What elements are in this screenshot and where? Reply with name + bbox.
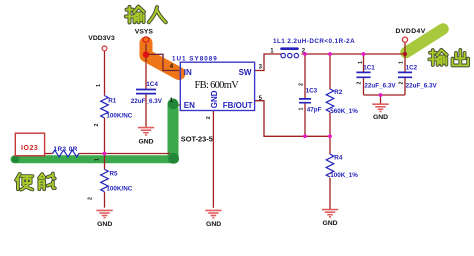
svg-text:22uF_6.3V: 22uF_6.3V [406,83,438,90]
wire EN node down to R5 [104,154,106,170]
green marker corner blob [168,153,179,164]
junction node FB rail C3 [303,134,307,138]
svg-text:1: 1 [358,61,364,64]
svg-text:2: 2 [399,81,405,84]
junction node EN/R1/R5/R3 [103,152,107,156]
svg-text:100K/NC: 100K/NC [106,113,132,120]
svg-text:1: 1 [399,61,405,64]
wire IO23 to R3 [45,153,53,155]
wire C3 top [304,54,306,99]
annotation text input (shu) [126,7,144,23]
green marker highlight EN vertical [168,104,179,158]
resistor R2 [326,89,334,112]
svg-text:22uF_6.3V: 22uF_6.3V [364,83,396,90]
wire EN vertical (under green marker) [170,105,180,154]
junction node FB rail R4 [328,134,332,138]
svg-text:R1: R1 [108,98,117,105]
wire R2 bottom to FB rail [329,112,331,136]
svg-text:1: 1 [95,158,101,161]
terminal DVDD4V [402,37,407,42]
ground under R5 [96,210,112,217]
green marker cap left end [12,156,20,164]
annotation text enable (shi) [16,174,32,190]
svg-text:47pF: 47pF [307,106,322,113]
svg-text:GND: GND [322,220,337,227]
svg-text:IN: IN [184,68,192,77]
svg-text:GND: GND [210,90,219,108]
annotation text input (ru) [149,7,166,22]
wire R2 top [329,54,331,89]
wire VSYS stem (under orange marker) [145,42,147,89]
capacitor C1 plates [356,72,370,77]
svg-text:VSYS: VSYS [135,29,154,36]
op-amp U1 chip body SY8089 [180,62,254,110]
ground under C1 C2 [372,104,388,111]
svg-text:R5: R5 [110,171,119,178]
annotation text enable (neng) [39,174,55,190]
wire bottom rail C1 to C2 [364,94,406,96]
svg-text:1C1: 1C1 [363,65,375,72]
wire C3 bottom to FB rail [304,103,306,137]
svg-text:2: 2 [299,83,305,86]
svg-text:2: 2 [206,116,212,119]
svg-text:1: 1 [96,84,102,87]
junction node rail C1 [362,52,366,56]
svg-text:GND: GND [97,221,112,228]
wire SW pin up to rail and to L1 [255,54,282,71]
svg-text:1R3 0R: 1R3 0R [54,146,78,153]
wire C2 top [404,54,406,72]
capacitor C3 plates [299,99,311,103]
svg-text:R2: R2 [334,89,343,96]
svg-text:560K_1%: 560K_1% [330,108,358,115]
junction node VSYS/IN [143,51,149,57]
orange marker highlight VSYS input [146,43,179,74]
svg-text:100K/NC: 100K/NC [106,186,132,193]
svg-text:1: 1 [299,107,305,110]
wire VDD3V3 stem to R1 [104,51,106,96]
terminal VDD3V3 [102,46,107,51]
svg-text:1C4: 1C4 [146,81,158,88]
ground under C4 [138,128,154,135]
svg-text:2: 2 [88,197,94,200]
ground under U1 pin 2 [205,210,221,217]
junction node rail DVDD4V/C2 [403,52,407,56]
wire R4 bottom to GND [329,178,331,209]
capacitor C4 plates [136,90,156,94]
wire R3 to EN vertical [79,153,170,155]
wire VSYS to IN staircase (under orange marker) [146,54,180,70]
svg-text:GND: GND [373,114,388,121]
svg-text:R4: R4 [334,154,343,161]
svg-text:EN: EN [184,101,195,110]
annotation text output (shu) [429,50,446,65]
wire C2 bottom [404,78,406,96]
green marker highlight DVDD4V output diagonal [406,29,443,53]
wire chip GND pin 2 down [212,111,214,208]
svg-text:1C2: 1C2 [406,65,418,72]
terminal VSYS [143,37,149,43]
svg-text:VDD3V3: VDD3V3 [88,35,115,42]
green marker cap top [168,99,178,109]
annotation text output (chu) [452,50,468,65]
IO23 port box [15,133,44,156]
svg-text:SOT-23-5: SOT-23-5 [181,135,213,144]
svg-text:GND: GND [138,139,153,146]
wire DVDD4V stem [404,42,406,54]
green marker highlight EN horizontal [15,155,176,163]
svg-text:2: 2 [94,123,100,126]
svg-text:1C3: 1C3 [306,88,318,95]
junction node rail C3 [303,52,307,56]
wire C1 top [363,54,365,72]
svg-text:FB: 600mV: FB: 600mV [195,80,240,91]
resistor R4 [326,154,334,177]
resistor R5 [101,169,109,191]
svg-text:SW: SW [239,68,252,77]
wire FB/OUT pin to divider rail [255,101,330,137]
svg-text:22uF_6.3V: 22uF_6.3V [131,98,163,105]
wire C4 bottom to GND [145,94,147,127]
capacitor C2 plates [398,72,412,77]
wire R1 bottom to EN node [104,118,106,154]
junction node bottom rail GND [379,93,383,97]
wire R5 to GND [104,192,106,208]
svg-text:IO23: IO23 [21,145,38,152]
svg-text:1L1 2.2uH-DCR<0.1R-2A: 1L1 2.2uH-DCR<0.1R-2A [273,38,355,45]
inductor L1 loops [281,53,285,57]
resistor R1 [101,96,109,118]
svg-text:GND: GND [206,221,221,228]
wire GND stem below C1 C2 [380,95,382,104]
wire C1 bottom [363,78,365,96]
dark wire seen through orange marker [146,54,179,70]
junction node rail R2 [328,52,332,56]
svg-text:DVDD4V: DVDD4V [396,28,426,35]
svg-text:2: 2 [357,81,363,84]
svg-text:1U1 SY8089: 1U1 SY8089 [172,56,218,63]
wire R4 top [329,136,331,154]
svg-text:FB/OUT: FB/OUT [223,101,253,110]
wire rail L1 to DVDD4V [302,53,406,55]
inductor L1 bar [282,47,298,50]
ground under R4 [322,210,338,217]
resistor R3 [53,150,79,157]
svg-text:100K_1%: 100K_1% [330,172,358,179]
